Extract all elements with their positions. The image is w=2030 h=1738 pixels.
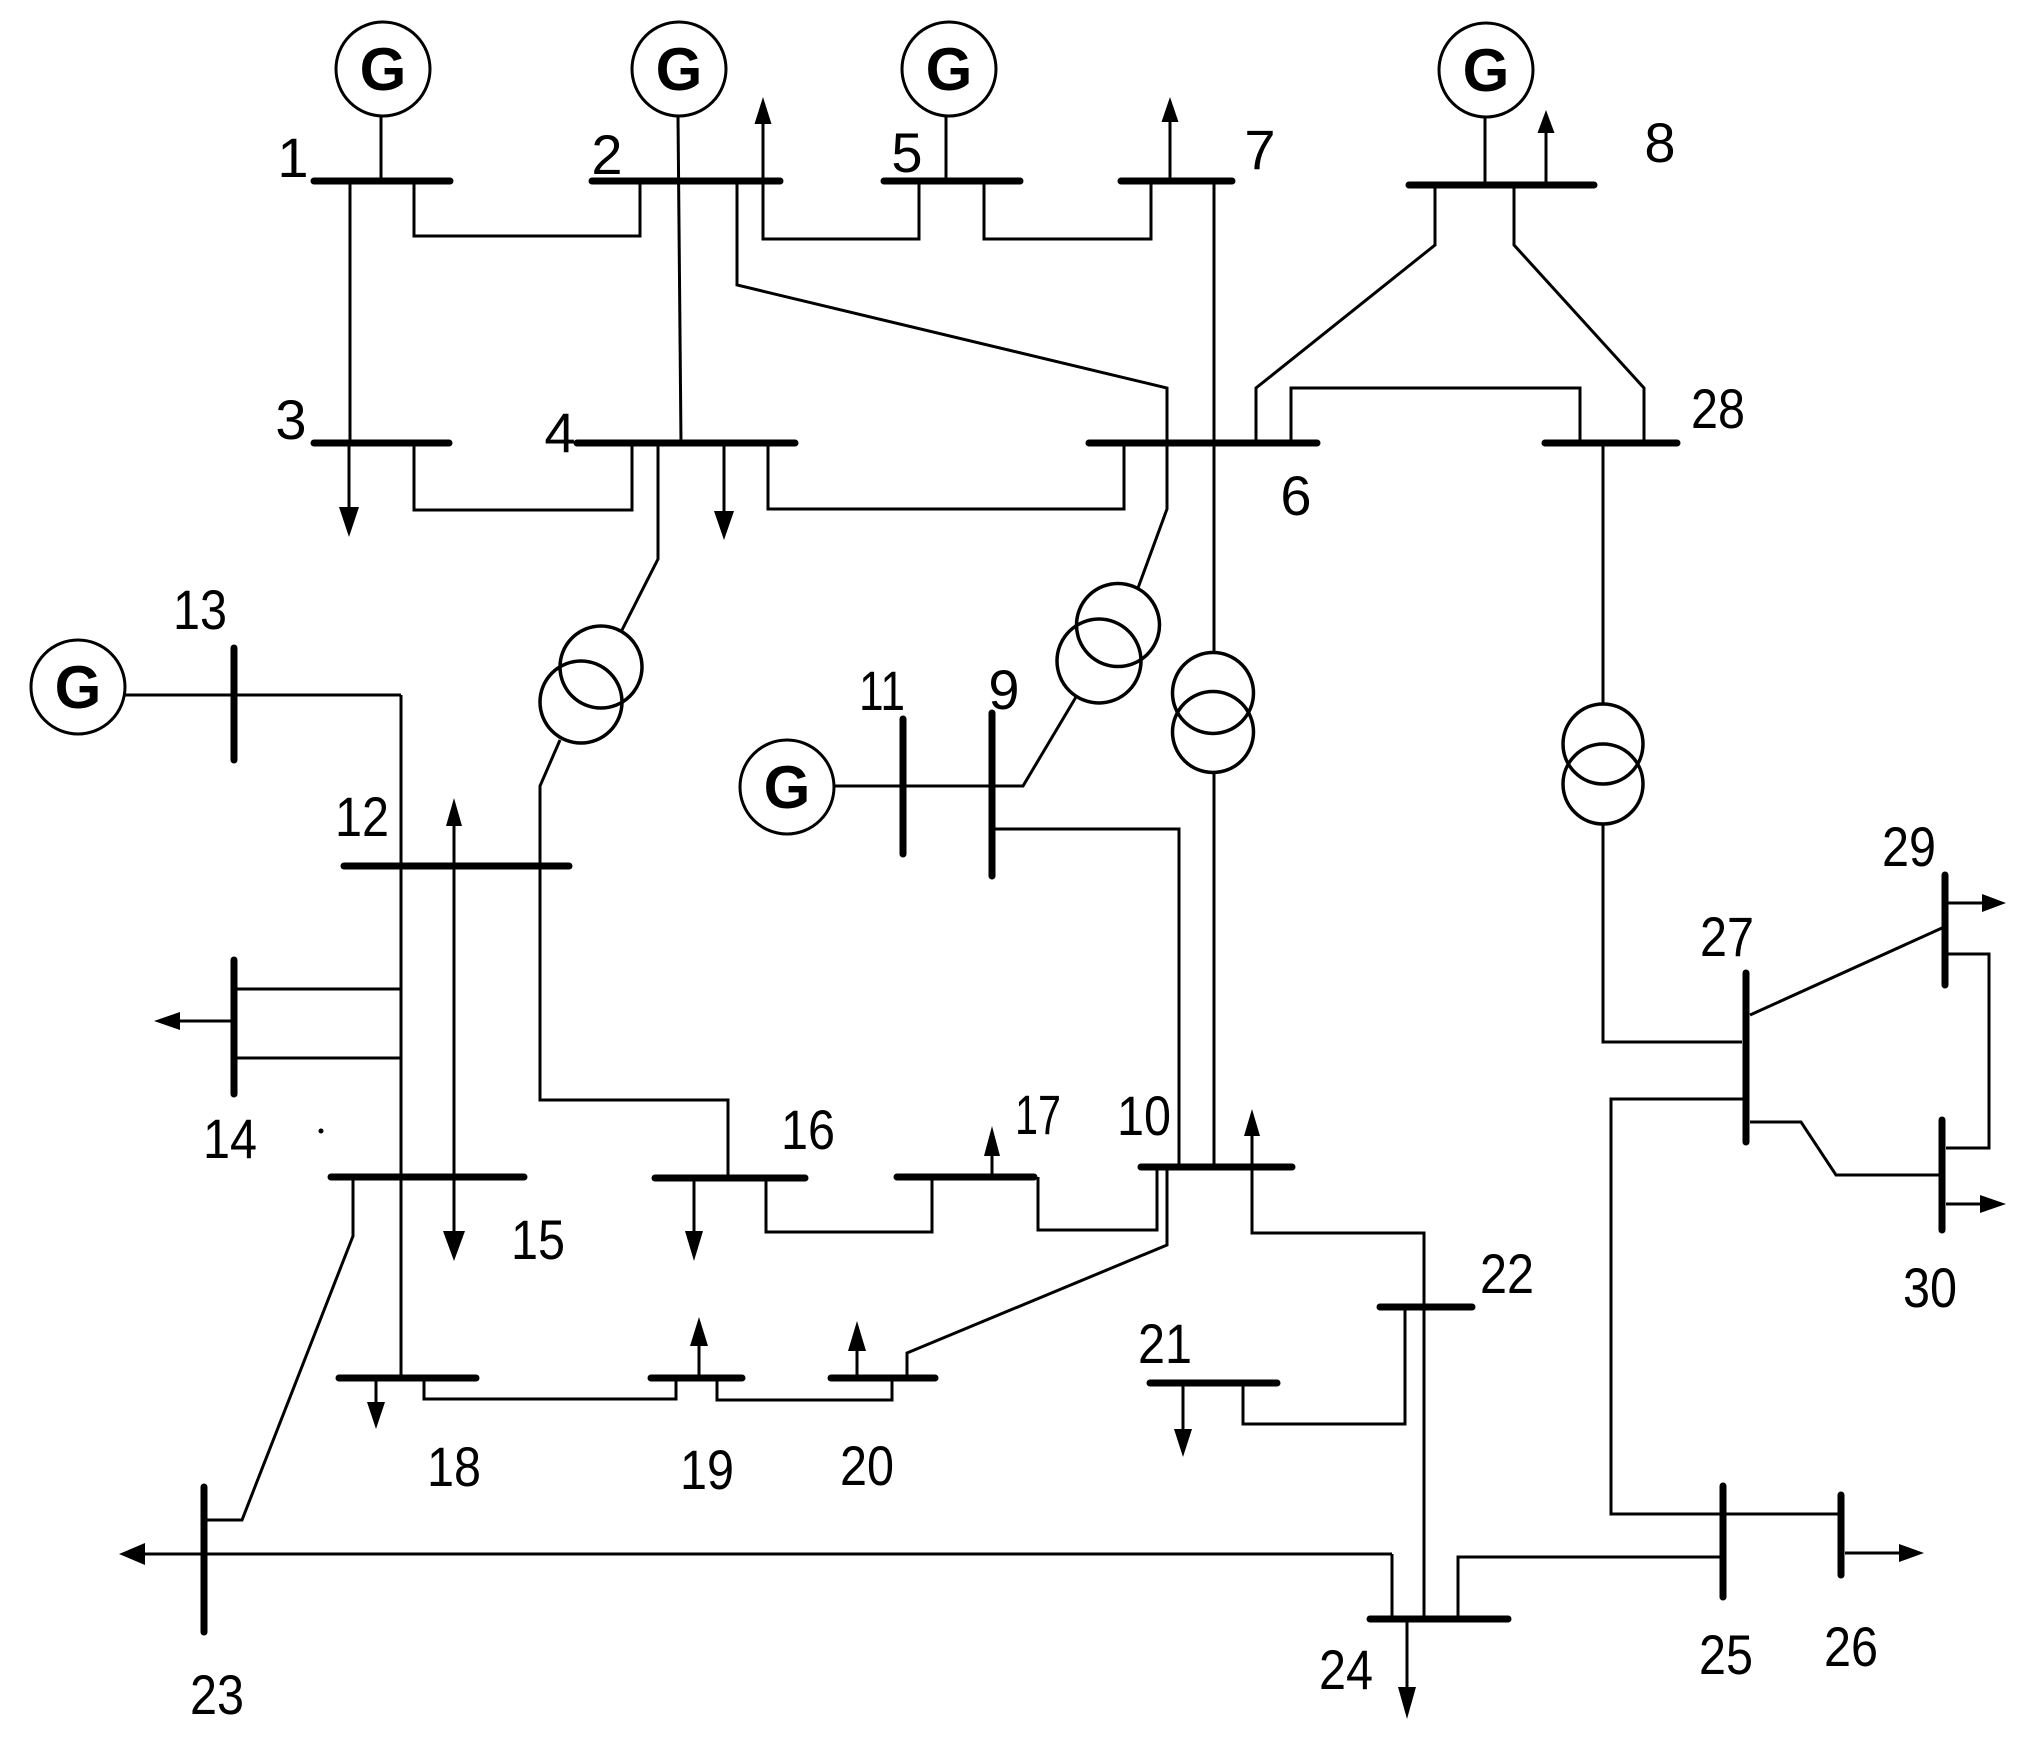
svg-text:11: 11: [859, 659, 905, 722]
wire line 2-5: [763, 181, 919, 239]
load arrow bus 26: [1845, 1544, 1924, 1562]
bus 18: [339, 1375, 476, 1382]
bus 20: [831, 1375, 935, 1382]
bus 21: [1150, 1380, 1277, 1387]
load arrow bus 8: [1538, 110, 1555, 185]
load arrow bus 10: [1244, 1109, 1260, 1167]
wire line 19-20: [717, 1378, 892, 1400]
load arrow bus 24: [1398, 1619, 1416, 1719]
svg-text:G: G: [55, 654, 102, 721]
wire line 12-13: [234, 694, 401, 697]
transformer T6-10: [1173, 443, 1254, 1167]
generator G5: [902, 22, 996, 181]
svg-text:15: 15: [511, 1208, 565, 1271]
transformer T4-12: [540, 443, 658, 866]
bus 22: [1380, 1304, 1472, 1311]
svg-text:30: 30: [1903, 1256, 1957, 1319]
svg-text:4: 4: [544, 401, 575, 464]
bus 29: [1942, 875, 1949, 985]
wire line 9-11: [903, 785, 992, 788]
load arrow bus 12 / bus 15 (double-headed): [443, 798, 465, 1261]
svg-text:8: 8: [1644, 111, 1675, 174]
load arrow bus 21: [1174, 1383, 1192, 1457]
svg-text:24: 24: [1319, 1638, 1373, 1701]
svg-text:21: 21: [1138, 1312, 1192, 1375]
svg-text:6: 6: [1280, 464, 1311, 527]
wire line 3-4: [414, 443, 632, 510]
svg-text:25: 25: [1699, 1623, 1753, 1686]
bus 11: [900, 719, 907, 854]
generator G8: [1439, 23, 1533, 185]
load arrow bus 14: [154, 1012, 231, 1030]
wire line 6-28: [1291, 388, 1580, 443]
load arrow bus 19: [690, 1317, 708, 1378]
bus 4: [577, 440, 795, 447]
load arrow bus 3: [339, 443, 359, 537]
wire line 21-22: [1243, 1307, 1405, 1424]
svg-text:12: 12: [335, 785, 389, 848]
wire line 10-20: [907, 1167, 1167, 1378]
load arrow bus 17: [984, 1126, 1000, 1177]
bus 24: [1370, 1616, 1508, 1623]
wire line 9-10: [992, 829, 1179, 1167]
bus 12: [344, 863, 569, 870]
load arrow bus 18: [367, 1378, 385, 1429]
bus 13: [231, 648, 238, 760]
bus 15: [331, 1174, 524, 1181]
svg-text:23: 23: [190, 1663, 244, 1726]
bus 6: [1089, 440, 1317, 447]
wire line 14-15: [234, 1057, 401, 1060]
wire line 15-23: [204, 1177, 353, 1520]
wire line 8-28: [1514, 185, 1644, 443]
svg-text:28: 28: [1691, 377, 1745, 440]
svg-text:20: 20: [840, 1434, 894, 1497]
bus 28: [1545, 440, 1677, 447]
generator G2: [632, 22, 726, 116]
generator G11: [740, 740, 903, 834]
svg-text:G: G: [926, 36, 973, 103]
wire line 2-6: [737, 181, 1167, 443]
wire line 29-30: [1946, 954, 1989, 1148]
svg-text:13: 13: [173, 578, 227, 641]
wire line 27-30: [1750, 1122, 1942, 1175]
generator G1: [336, 22, 430, 181]
wire line 2-4 (with G2 stem): [678, 116, 681, 443]
load arrow bus 30: [1946, 1195, 2006, 1213]
load arrow bus 2: [755, 97, 772, 181]
svg-text:3: 3: [275, 388, 306, 451]
wire line 6-7: [1213, 181, 1216, 443]
load arrow bus 20: [848, 1321, 866, 1378]
wire line 6-8: [1256, 185, 1435, 443]
svg-text:5: 5: [891, 121, 922, 184]
decorative dot: [319, 1129, 324, 1134]
bus 5: [884, 178, 1020, 185]
load arrow bus 7: [1162, 97, 1179, 181]
svg-text:G: G: [360, 36, 407, 103]
wire line 25-26: [1723, 1513, 1841, 1516]
svg-text:14: 14: [203, 1107, 257, 1170]
bus 7: [1121, 178, 1232, 185]
wire line 4-6: [768, 443, 1124, 509]
svg-text:19: 19: [680, 1438, 734, 1501]
load arrow bus 16: [685, 1178, 703, 1261]
wire line 10-17: [1038, 1167, 1157, 1230]
svg-text:2: 2: [591, 123, 622, 186]
svg-text:16: 16: [781, 1098, 835, 1161]
bus 10: [1141, 1164, 1292, 1171]
svg-text:17: 17: [1015, 1083, 1061, 1146]
wire line 23-24 with load arrow bus 23: [119, 1543, 1392, 1619]
bus 26: [1838, 1495, 1845, 1575]
wire line 16-17: [766, 1177, 932, 1232]
bus 14: [231, 960, 238, 1094]
load arrow bus 29: [1948, 894, 2006, 912]
wire line 1-2: [414, 181, 640, 236]
bus 19: [651, 1375, 742, 1382]
wire line 24-25: [1458, 1557, 1723, 1619]
wire line 12-14: [234, 988, 401, 991]
bus 3: [314, 440, 449, 447]
wire line 12-16: [540, 866, 728, 1178]
wire line 5-7: [984, 181, 1151, 239]
svg-text:G: G: [1463, 37, 1510, 104]
svg-text:27: 27: [1700, 905, 1754, 968]
wire line 12-15-18 vertical: [400, 695, 403, 1378]
svg-text:22: 22: [1480, 1242, 1534, 1305]
bus 16: [655, 1175, 805, 1182]
bus 2: [592, 178, 780, 185]
svg-text:7: 7: [1244, 118, 1275, 181]
svg-text:9: 9: [988, 658, 1019, 721]
bus 8: [1409, 182, 1594, 189]
svg-text:10: 10: [1117, 1084, 1171, 1147]
transformer T6-9: [992, 443, 1167, 786]
load arrow bus 4: [714, 443, 734, 540]
svg-text:26: 26: [1824, 1615, 1878, 1678]
svg-text:G: G: [656, 36, 703, 103]
svg-text:1: 1: [277, 126, 308, 189]
bus 23: [201, 1487, 208, 1632]
bus 25: [1720, 1486, 1727, 1597]
bus 1: [314, 178, 450, 185]
bus 27: [1743, 973, 1750, 1142]
transformer T28-27: [1563, 443, 1742, 1042]
bus 17: [897, 1174, 1034, 1181]
wire line 1-3: [349, 181, 352, 443]
generator G13: [31, 640, 234, 734]
svg-text:29: 29: [1882, 815, 1936, 878]
wire line 18-19: [424, 1378, 676, 1399]
svg-text:G: G: [764, 754, 811, 821]
svg-text:18: 18: [427, 1435, 481, 1498]
wire line 25-27: [1611, 1099, 1746, 1514]
bus 30: [1939, 1120, 1946, 1230]
wire line 10-22-24: [1252, 1167, 1424, 1619]
wire line 27-29: [1750, 928, 1942, 1015]
bus 9: [989, 713, 996, 876]
